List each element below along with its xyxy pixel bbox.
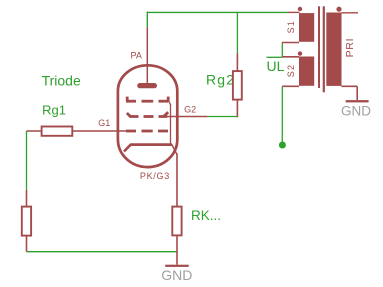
tube V1 internal rail: [170, 104, 172, 145]
transformer T1 S1 polarity dot: [298, 7, 302, 11]
transformer T1 S2 polarity dot: [298, 51, 302, 55]
wire bottom rail: [27, 251, 178, 253]
wire G2 to Rg2: [207, 116, 238, 118]
svg-text:Rg1: Rg1: [42, 103, 66, 118]
transformer T1 core line 2: [323, 6, 325, 92]
svg-text:GND: GND: [161, 267, 192, 283]
transformer T1 S2 bottom pin: [282, 85, 299, 87]
resistor R2 body: [22, 207, 31, 236]
resistor Rg2 pins: [236, 54, 238, 72]
svg-text:PK/G3: PK/G3: [140, 171, 170, 181]
tube V1 grid2 pin line: [159, 116, 207, 118]
tube V1 cathode exit diagonal: [172, 145, 177, 155]
wire net B+ top rail: [147, 11, 288, 13]
tube V1 grid1 row: [126, 130, 168, 133]
resistor Rg2 body: [233, 71, 242, 100]
tube V1 grid2 row: [127, 112, 168, 116]
transformer T1 S1 bottom pin: [282, 42, 299, 44]
svg-text:Rg2: Rg2: [206, 72, 235, 88]
svg-text:S2: S2: [286, 64, 296, 78]
resistor R2 pins: [26, 190, 28, 207]
tube V1 cathode pin line: [176, 154, 178, 207]
resistor Rg1: [42, 127, 73, 136]
wire Rg2 top drop: [236, 12, 238, 54]
svg-text:S1: S1: [286, 20, 296, 34]
svg-text:PA: PA: [131, 50, 142, 60]
ground GND middle bar: [165, 265, 189, 267]
tube V1 anode pin PA: [146, 27, 148, 83]
tube V1 cathode tail: [124, 145, 131, 152]
svg-text:G1: G1: [98, 118, 110, 128]
tube V1 envelope: [118, 65, 177, 167]
transformer T1 PRI bottom pin: [341, 85, 357, 87]
transformer T1 core line 1: [318, 6, 320, 88]
transformer T1 S2 top pin: [282, 56, 299, 58]
wire UL stub: [267, 56, 283, 58]
junction dot: [279, 142, 286, 149]
resistor RK body: [172, 207, 181, 236]
svg-text:UL: UL: [267, 58, 285, 74]
tube V1 grid3 row: [126, 97, 168, 102]
transformer T1 S2 winding: [299, 57, 314, 86]
ground GND right bar: [346, 100, 369, 102]
svg-text:GND: GND: [341, 103, 371, 118]
transformer T1 PRI top pin: [341, 12, 358, 14]
svg-text:RK...: RK...: [191, 208, 221, 223]
svg-text:Triode: Triode: [42, 73, 81, 89]
wire UL tap vertical: [281, 43, 283, 58]
svg-text:G2: G2: [184, 104, 196, 114]
transformer T1 PRI polarity dot: [336, 7, 341, 12]
tube V1 grid3 link diagonal: [168, 100, 170, 105]
transformer T1 S1 top pin: [288, 11, 300, 13]
resistor RK bottom pin: [176, 235, 178, 264]
transformer T1 S1 winding: [299, 13, 314, 42]
wire S2 bottom drop: [281, 86, 283, 145]
svg-text:PRI: PRI: [344, 38, 356, 58]
wire anode drop: [146, 12, 148, 28]
ground GND right stem: [356, 86, 358, 100]
tube V1 cathode: [130, 143, 172, 146]
wire left column: [26, 131, 28, 190]
tube V1 grid1 pin line: [27, 130, 127, 132]
tube V1 anode plate: [140, 83, 155, 88]
transformer T1 PRI winding: [326, 13, 341, 86]
